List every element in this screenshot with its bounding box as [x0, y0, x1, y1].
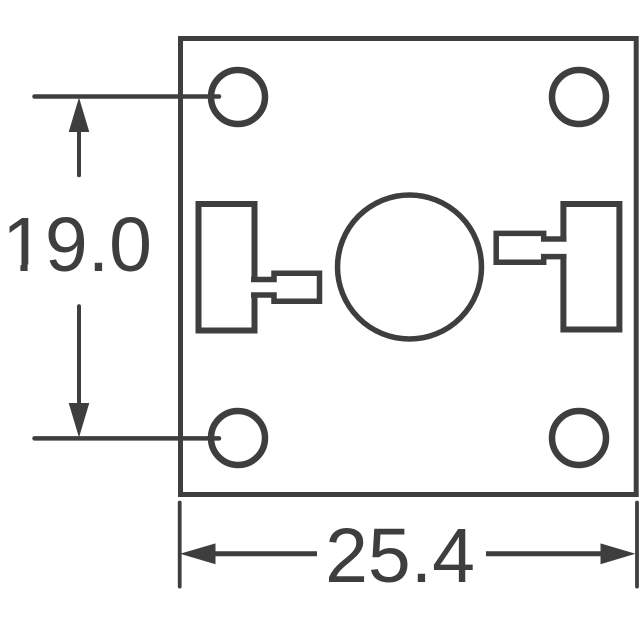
horizontal dimension leader, right segment	[486, 551, 603, 556]
vertical dimension leader, lower segment	[77, 306, 81, 404]
arrowhead left	[180, 543, 216, 564]
extension line, bottom-left corner	[178, 503, 182, 587]
extension line, bottom-right corner	[635, 503, 639, 587]
right solder lug body	[563, 204, 619, 330]
package body outline (square, 25.4 x 25.4)	[181, 39, 637, 495]
horizontal dimension leader, left segment	[215, 551, 317, 556]
mounting hole top-left	[211, 70, 265, 124]
right terminal pin (fill mask)	[496, 233, 566, 262]
arrowhead down	[69, 403, 90, 438]
extension line, bottom hole center	[35, 436, 220, 441]
trim serif foot of digit 1 to Helvetica style	[6, 264, 20, 272]
mounting hole top-right	[552, 70, 606, 124]
mounting hole bottom-left	[211, 411, 265, 465]
svg-text:25.4: 25.4	[325, 513, 475, 599]
left terminal pin (fill mask)	[251, 273, 320, 301]
left solder lug body	[199, 204, 255, 331]
mounting hole bottom-right	[552, 411, 606, 465]
left terminal pin (outline)	[251, 273, 320, 301]
arrowhead up	[69, 98, 90, 133]
arrowhead right	[601, 543, 636, 564]
extension line, top hole center	[35, 94, 220, 99]
right terminal pin (outline)	[496, 233, 566, 262]
center boss circle	[338, 195, 482, 339]
svg-text:19.0: 19.0	[2, 202, 152, 288]
vertical dimension leader, upper segment	[77, 130, 81, 175]
